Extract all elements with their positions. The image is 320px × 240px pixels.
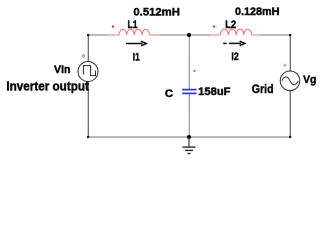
corner top-right	[289, 34, 291, 36]
wire capacitor branch upper gray	[188, 35, 190, 58]
wire top rail right segment	[261, 34, 291, 36]
wire left vertical upper	[87, 35, 89, 62]
svg-text:Inverter output: Inverter output	[6, 80, 89, 94]
node junction bottom (cap to rail)	[187, 135, 191, 139]
source VIn (square-wave source)	[78, 62, 98, 82]
svg-text:L1: L1	[128, 19, 138, 31]
svg-text:L2: L2	[225, 19, 236, 31]
wire top rail between node and L2	[189, 34, 211, 36]
corner top-left	[87, 34, 89, 36]
svg-text:158uF: 158uF	[198, 86, 231, 98]
wire right vertical upper	[289, 35, 291, 72]
wire bottom rail	[88, 136, 291, 138]
VIn top marker	[82, 55, 85, 58]
capacitor C1 plates	[182, 89, 197, 91]
source Vg (AC sine source)	[280, 71, 300, 91]
inductor L2	[211, 29, 261, 35]
svg-text:C: C	[165, 88, 173, 100]
svg-text:0.512mH: 0.512mH	[133, 6, 180, 18]
corner bottom-right	[289, 136, 291, 138]
svg-text:0.128mH: 0.128mH	[235, 6, 280, 18]
svg-text:VIn: VIn	[54, 64, 71, 76]
svg-text:I2: I2	[231, 51, 238, 63]
svg-text:Grid: Grid	[252, 82, 274, 96]
wire top rail left segment	[88, 34, 108, 36]
svg-text:I1: I1	[133, 51, 140, 63]
wire top rail between L1 and node	[160, 34, 190, 36]
ground	[182, 137, 195, 154]
L1 polarity dot	[112, 25, 114, 27]
capacitor polarity dot	[193, 70, 195, 72]
current arrow I1	[126, 41, 146, 46]
node junction top (cap to rail)	[187, 33, 191, 37]
corner bottom-left	[87, 136, 89, 138]
wire left vertical lower	[87, 81, 89, 137]
wire capacitor branch lower gray	[188, 114, 190, 137]
Vg top marker	[283, 64, 286, 67]
inductor L1	[108, 29, 160, 35]
L2 polarity dot	[213, 25, 215, 27]
wire right vertical lower	[289, 91, 291, 138]
capacitor C1 blue leads	[188, 57, 190, 89]
current arrow I2	[223, 41, 245, 46]
svg-text:Vg: Vg	[303, 74, 316, 86]
